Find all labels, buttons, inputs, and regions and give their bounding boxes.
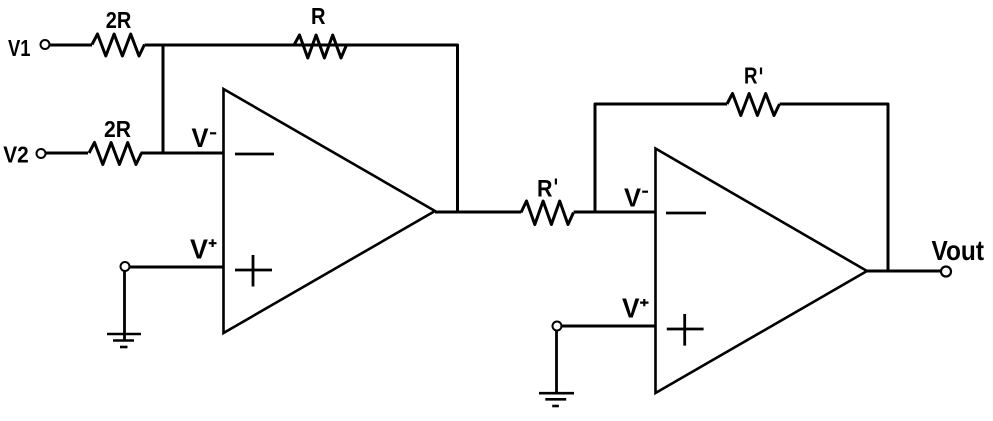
- svg-text:V1: V1: [8, 35, 31, 61]
- svg-text:R: R: [311, 3, 326, 29]
- svg-text:R: R: [744, 63, 758, 89]
- svg-text:2R: 2R: [104, 116, 131, 142]
- svg-text:Vout: Vout: [932, 235, 985, 266]
- svg-text:V: V: [622, 293, 640, 324]
- svg-text:R: R: [537, 175, 553, 202]
- svg-text:V: V: [190, 234, 208, 265]
- svg-text:2R: 2R: [106, 7, 132, 33]
- svg-text:V: V: [624, 182, 642, 212]
- svg-text:V: V: [192, 123, 209, 153]
- svg-text:V2: V2: [3, 141, 29, 167]
